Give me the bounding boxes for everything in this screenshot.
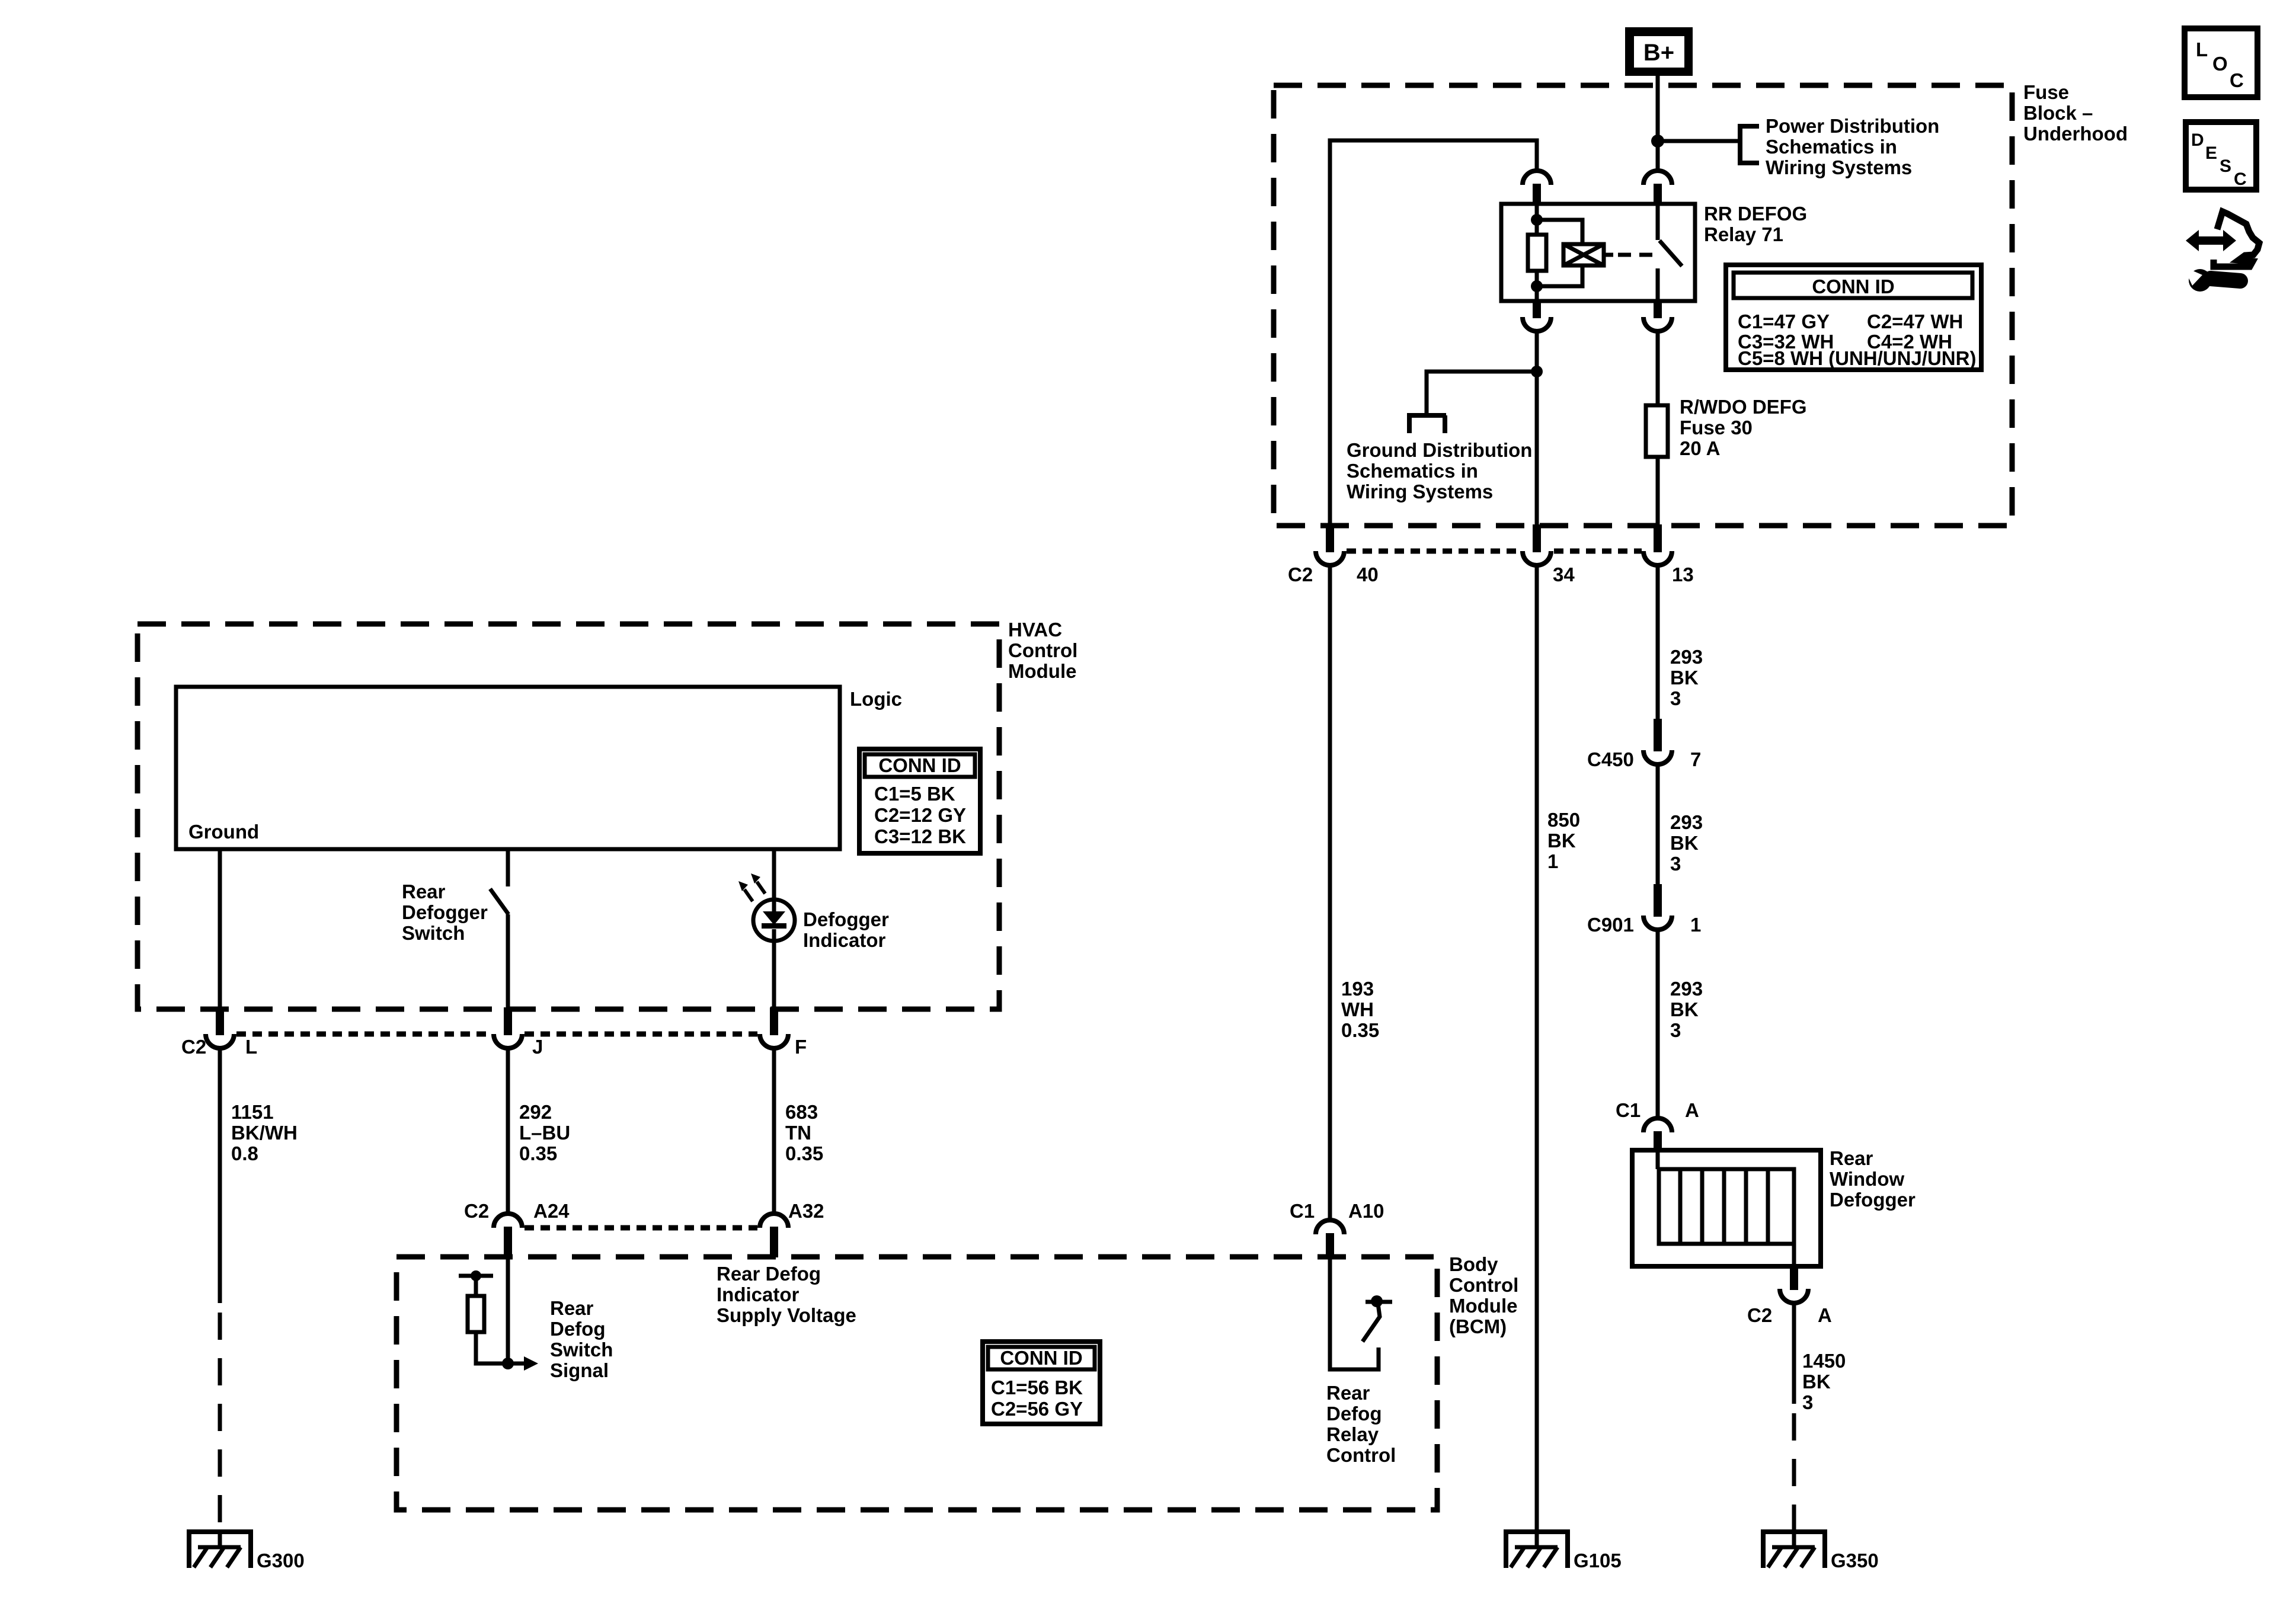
logic box [176,687,840,849]
ground G350 [1761,1529,1827,1534]
svg-text:Schematics in: Schematics in [1347,460,1478,482]
body control module box [396,1257,1437,1510]
junction node to ground distribution [1531,366,1543,377]
connector C2-L [206,1034,234,1048]
svg-text:RR DEFOG: RR DEFOG [1704,203,1807,225]
svg-text:0.35: 0.35 [785,1142,823,1164]
svg-text:CONN ID: CONN ID [1812,276,1894,297]
svg-text:Power Distribution: Power Distribution [1766,115,1939,137]
svg-text:WH: WH [1341,998,1374,1020]
pull-up rail bar [459,1274,493,1278]
connector F [760,1034,788,1048]
relay control driver inside BCM [1330,1257,1379,1369]
svg-text:Ground: Ground [188,821,259,843]
svg-text:193: 193 [1341,978,1374,1000]
wire: branch to ground distribution reference [1427,372,1537,413]
svg-text:Window: Window [1830,1168,1904,1190]
svg-text:C5=8 WH (UNH/UNJ/UNR): C5=8 WH (UNH/UNJ/UNR) [1738,347,1976,369]
svg-text:7: 7 [1690,748,1701,770]
wire: indicator leg upper [772,849,776,900]
svg-text:C1: C1 [1290,1200,1315,1222]
svg-text:3: 3 [1670,687,1681,709]
svg-text:O: O [2212,53,2228,75]
svg-text:13: 13 [1672,564,1694,585]
svg-text:Control: Control [1326,1444,1396,1466]
svg-text:Switch: Switch [402,922,465,944]
wire: B+ down to relay switch pin [1656,76,1660,171]
junction node on B+ wire [1651,135,1664,148]
rear window defogger outer box [1632,1150,1821,1266]
svg-text:(BCM): (BCM) [1449,1315,1507,1337]
svg-text:Defogger: Defogger [1830,1189,1916,1211]
wire 193 WH 0.35 (circuit 40) [1328,565,1332,1221]
svg-text:J: J [532,1036,543,1058]
svg-text:Wiring Systems: Wiring Systems [1766,156,1912,178]
connector C2-40 [1316,551,1344,565]
svg-text:Underhood: Underhood [2023,123,2128,145]
svg-text:C2: C2 [1747,1304,1772,1326]
svg-text:Module: Module [1008,660,1076,682]
svg-text:A: A [1818,1304,1832,1326]
connector C2-A under defogger [1780,1289,1808,1303]
svg-text:293: 293 [1670,646,1703,668]
service icon (arrow / panel / wrench) [2186,230,2236,251]
wire 293 BK 3 (segment 3) [1656,930,1660,1118]
DESC reference box [2186,122,2256,190]
wire out of grid [1792,1244,1796,1266]
relay internal resistor [1528,235,1546,271]
fuse block underhood box [1274,85,2012,526]
svg-text:C2=56 GY: C2=56 GY [991,1398,1083,1420]
svg-text:Fuse: Fuse [2023,81,2069,103]
connector: relay switch pin (bottom) [1643,317,1672,331]
svg-text:Control: Control [1008,639,1077,661]
wire 1450 BK 3 to G350 [1792,1303,1796,1404]
wire: fuse 30 to exit 13 [1656,457,1660,527]
svg-text:Signal: Signal [550,1359,609,1381]
B+ power feed symbol [1625,27,1693,76]
svg-text:A24: A24 [533,1200,570,1222]
connector line under HVAC [236,1032,757,1037]
svg-text:HVAC: HVAC [1008,619,1062,641]
connector line at fuse block exits [1347,549,1642,554]
svg-text:Block –: Block – [2023,102,2093,124]
svg-text:A10: A10 [1348,1200,1384,1222]
relay coil branch wires [1537,220,1582,286]
svg-text:Switch: Switch [550,1339,613,1361]
junction + signal arrow [502,1358,514,1369]
svg-text:Module: Module [1449,1295,1517,1317]
svg-text:0.8: 0.8 [231,1142,258,1164]
svg-text:L–BU: L–BU [519,1122,570,1144]
svg-text:C2=47 WH: C2=47 WH [1867,311,1963,332]
relay coil pin wire + junction dots [1535,204,1539,301]
svg-text:BK: BK [1670,998,1699,1020]
svg-text:G105: G105 [1574,1550,1622,1571]
svg-text:C: C [2234,169,2247,189]
svg-text:R/WDO DEFG: R/WDO DEFG [1680,396,1806,418]
svg-text:Rear: Rear [550,1297,594,1319]
svg-text:850: 850 [1547,809,1580,831]
svg-text:BK: BK [1802,1371,1831,1393]
svg-text:D: D [2191,130,2204,150]
fuse R/WDO DEFG Fuse 30 20A [1646,405,1668,457]
wire into grid [1656,1150,1660,1169]
wire: indicator leg lower [772,941,776,1007]
svg-text:C1=56 BK: C1=56 BK [991,1377,1083,1398]
svg-text:Rear Defog: Rear Defog [717,1263,821,1285]
svg-text:L: L [2196,39,2208,60]
wire 293 BK 3 (segment 1) [1656,565,1660,719]
wire 850 BK 1 (circuit 34) to G105 [1535,565,1539,1532]
svg-text:A: A [1685,1099,1699,1121]
svg-text:Defog: Defog [550,1318,606,1340]
svg-text:293: 293 [1670,811,1703,833]
svg-text:C1=5 BK: C1=5 BK [874,783,955,805]
svg-text:40: 40 [1357,564,1379,585]
svg-text:3: 3 [1802,1391,1813,1413]
svg-text:292: 292 [519,1101,552,1123]
ground G105 [1504,1529,1569,1534]
connector: relay switch pin (top) [1643,171,1672,185]
svg-text:C2: C2 [181,1036,206,1058]
svg-text:F: F [795,1036,807,1058]
wire: relay coil low side down to 34 exit [1535,331,1539,527]
connector A32 [760,1214,788,1228]
svg-text:A32: A32 [788,1200,824,1222]
wire: ground leg from logic box [218,849,222,1007]
svg-text:E: E [2205,143,2217,163]
connector C2-A24 [494,1214,522,1228]
wire 292 L-BU 0.35 [506,1048,510,1214]
svg-text:Schematics in: Schematics in [1766,136,1897,158]
LOC reference box [2185,28,2257,97]
svg-text:Wiring Systems: Wiring Systems [1347,481,1493,502]
svg-text:Fuse 30: Fuse 30 [1680,417,1753,438]
svg-text:Indicator: Indicator [717,1283,800,1305]
svg-text:C1=47 GY: C1=47 GY [1738,311,1830,332]
svg-text:Rear: Rear [402,881,446,902]
svg-text:1: 1 [1547,850,1558,872]
svg-text:Rear: Rear [1326,1382,1370,1404]
svg-text:293: 293 [1670,978,1703,1000]
svg-text:BK: BK [1670,667,1699,689]
svg-text:0.35: 0.35 [519,1142,557,1164]
wire: switch signal inside BCM [506,1257,510,1363]
wire: switch leg upper [506,849,510,886]
svg-text:BK: BK [1547,830,1576,852]
wire: 40 riser and top run to relay coil [1330,140,1537,527]
svg-text:C3=12 BK: C3=12 BK [874,825,966,847]
CONN ID table (HVAC) [859,749,980,853]
HVAC control module box [137,624,999,1009]
svg-text:Defog: Defog [1326,1403,1382,1425]
svg-text:Logic: Logic [850,688,902,710]
svg-text:Ground Distribution: Ground Distribution [1347,439,1532,461]
wire: switch leg lower [506,914,510,1007]
ground distribution off-page bracket [1407,415,1446,433]
svg-text:C450: C450 [1587,748,1634,770]
defogger indicator LED [753,900,795,941]
svg-text:C901: C901 [1587,914,1634,936]
relay actuating link (dashed) [1604,253,1613,257]
svg-text:B+: B+ [1643,40,1674,66]
ground G300 [187,1529,252,1534]
svg-text:Relay 71: Relay 71 [1704,223,1783,245]
connector: relay coil pin (top) [1523,171,1551,185]
wire: branch to power distribution reference [1658,139,1740,143]
svg-text:G300: G300 [257,1550,305,1571]
svg-text:BK: BK [1670,832,1699,854]
relay RR DEFOG Relay 71 box [1501,204,1695,301]
svg-text:1151: 1151 [231,1101,274,1123]
svg-text:CONN ID: CONN ID [1000,1347,1082,1369]
svg-text:C: C [2230,69,2244,91]
connector C1-A into defogger [1643,1118,1672,1132]
connector J [494,1034,522,1048]
svg-text:C2: C2 [464,1200,489,1222]
svg-text:Defogger: Defogger [402,901,488,923]
connector line A24-A32 [525,1225,757,1231]
svg-text:Body: Body [1449,1253,1498,1275]
relay coil (box with X) [1563,244,1604,265]
svg-text:683: 683 [785,1101,818,1123]
svg-text:3: 3 [1670,853,1681,875]
CONN ID table (fuse block) [1726,265,1981,370]
wire: relay switch output to fuse 30 [1656,331,1660,405]
connector 13 [1643,551,1672,565]
wire 293 BK 3 (segment 2) [1656,764,1660,885]
svg-text:Indicator: Indicator [803,929,886,951]
svg-text:0.35: 0.35 [1341,1019,1379,1041]
svg-text:TN: TN [785,1122,811,1144]
in-line connector C901 pin 1 [1643,916,1672,930]
connector: relay coil pin (bottom) [1523,317,1551,331]
svg-text:L: L [245,1036,257,1058]
svg-text:3: 3 [1670,1019,1681,1041]
svg-text:Defogger: Defogger [803,908,889,930]
svg-text:C2: C2 [1288,564,1313,585]
LED light arrows [744,889,753,901]
CONN ID table (BCM) [983,1342,1100,1424]
wire 1151 BK/WH 0.8 to G300 [218,1048,222,1303]
svg-text:G350: G350 [1831,1550,1879,1571]
svg-text:C1: C1 [1616,1099,1641,1121]
svg-text:Rear: Rear [1830,1147,1873,1169]
svg-text:1: 1 [1690,914,1701,936]
BCM pull-up resistor [468,1296,484,1332]
svg-text:BK/WH: BK/WH [231,1122,298,1144]
relay switch contacts [1656,204,1660,240]
connector 34 [1523,551,1551,565]
svg-text:Supply Voltage: Supply Voltage [717,1304,856,1326]
svg-text:Relay: Relay [1326,1423,1379,1445]
power distribution off-page bracket [1738,124,1759,165]
defogger grid element [1659,1169,1794,1244]
svg-text:CONN ID: CONN ID [878,754,961,776]
in-line connector C450 pin 7 [1643,750,1672,764]
connector C1-A10 into BCM [1316,1220,1344,1234]
rear defogger switch (open contact) [490,889,509,914]
svg-text:C2=12 GY: C2=12 GY [874,804,966,826]
svg-text:34: 34 [1553,564,1575,585]
svg-text:20 A: 20 A [1680,437,1720,459]
svg-text:1450: 1450 [1802,1350,1846,1372]
wire 683 TN 0.35 [772,1048,776,1214]
svg-text:Control: Control [1449,1274,1518,1296]
svg-text:S: S [2220,156,2231,176]
